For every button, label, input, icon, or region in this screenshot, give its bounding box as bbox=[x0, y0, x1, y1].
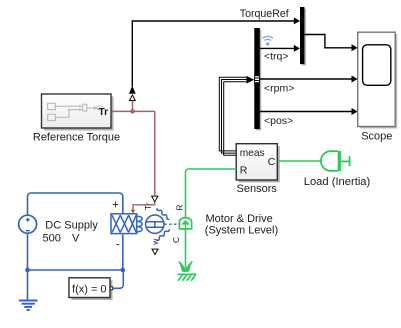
node: junction at supply bottom bbox=[25, 268, 30, 273]
svg-text:C: C bbox=[268, 156, 276, 168]
wire: pos signal from Bus Selector to Scope bbox=[260, 111, 352, 113]
svg-text:<pos>: <pos> bbox=[264, 115, 293, 127]
wire: green line down to mechanical reference bbox=[185, 229, 187, 268]
svg-text:Scope: Scope bbox=[361, 131, 392, 143]
svg-text:+: + bbox=[112, 199, 119, 211]
wire: PS line from Tr output to junction and down to motor bbox=[112, 101, 155, 195]
wire: TorqueRef signal line (black, from arrow up to Mux) bbox=[132, 21, 294, 87]
wire: PS stub into winding (motor icon) bbox=[133, 202, 155, 210]
wire: rpm signal from Bus Selector to Scope bbox=[260, 78, 352, 80]
svg-text:(System Level): (System Level) bbox=[205, 225, 278, 237]
svg-text:500: 500 bbox=[43, 232, 61, 244]
svg-text:R: R bbox=[240, 165, 248, 177]
ground: mechanical rotational reference bbox=[178, 261, 197, 280]
block Load (Inertia) icon bbox=[321, 151, 350, 171]
Scope block bbox=[360, 34, 398, 128]
wire: solver connection bbox=[113, 270, 124, 288]
bus input badge on bar bbox=[255, 76, 260, 83]
shaft squiggle top bbox=[157, 208, 169, 219]
node: junction at motor - bbox=[121, 268, 126, 273]
subsystem Reference Torque bbox=[42, 94, 114, 131]
svg-text:f(x) = 0: f(x) = 0 bbox=[72, 283, 107, 295]
wire: green conserving line Sensors R down to motor shaft node bbox=[186, 169, 237, 217]
motor circle bbox=[146, 215, 164, 233]
svg-text:Reference Torque: Reference Torque bbox=[33, 132, 120, 144]
port w: hollow down triangle bbox=[152, 249, 158, 254]
svg-text:V: V bbox=[72, 232, 80, 244]
node: PS junction bbox=[130, 109, 135, 114]
svg-text:w: w bbox=[150, 238, 160, 246]
block Sensors bbox=[239, 146, 280, 182]
svg-text:Sensors: Sensors bbox=[237, 183, 278, 195]
wire: blue electrical from DC supply top to motor + bbox=[28, 193, 123, 215]
ground: electrical reference bbox=[19, 301, 38, 311]
svg-text:Motor & Drive: Motor & Drive bbox=[206, 213, 273, 225]
dashed shaft link to connection node bbox=[164, 223, 179, 225]
Mux bar bbox=[302, 9, 306, 66]
node: filled up arrow (signal direction) bbox=[129, 86, 136, 94]
svg-text:<rpm>: <rpm> bbox=[264, 83, 294, 95]
port Tr of motor: hollow down triangle bbox=[152, 196, 158, 202]
wire: bottom rail bbox=[27, 233, 29, 300]
svg-text:Tr: Tr bbox=[99, 107, 109, 118]
logging badge (wifi icon) bbox=[262, 36, 273, 40]
block solver f(x)=0 bbox=[72, 280, 113, 300]
svg-text:meas: meas bbox=[240, 148, 265, 159]
coupling bumps bbox=[137, 216, 142, 221]
svg-text:DC Supply: DC Supply bbox=[45, 220, 98, 232]
svg-text:C: C bbox=[171, 237, 181, 243]
scope screen bbox=[363, 45, 391, 86]
motor icon: winding box bbox=[111, 208, 169, 240]
svg-text:-: - bbox=[116, 239, 120, 251]
node: shaft connection marker (green shield with arrow) bbox=[179, 218, 191, 229]
shaft squiggle bottom bbox=[157, 229, 169, 240]
svg-text:<trq>: <trq> bbox=[264, 51, 289, 63]
svg-text:Load (Inertia): Load (Inertia) bbox=[304, 176, 371, 188]
svg-text:R: R bbox=[174, 205, 184, 211]
svg-text:Tr: Tr bbox=[143, 202, 153, 210]
Bus Selector bar bbox=[256, 30, 261, 131]
svg-text:TorqueRef: TorqueRef bbox=[240, 8, 289, 20]
wire: trq signal from Bus Selector to Mux bbox=[260, 47, 295, 49]
wire: motor - down to bottom rail bbox=[122, 235, 124, 270]
arrowhead into Mux input 1 bbox=[294, 17, 300, 24]
node: hollow up triangle (PS connection) bbox=[130, 95, 136, 101]
wire: measurement bus (triple line) from Sensors to Bus Selector bbox=[219, 77, 247, 155]
solver port square bbox=[110, 287, 113, 290]
wire: Mux output to Scope input 1 bbox=[304, 35, 352, 48]
wire: green conserving line Sensors C to Load bbox=[278, 160, 322, 162]
source: DC Supply circle bbox=[19, 215, 37, 233]
